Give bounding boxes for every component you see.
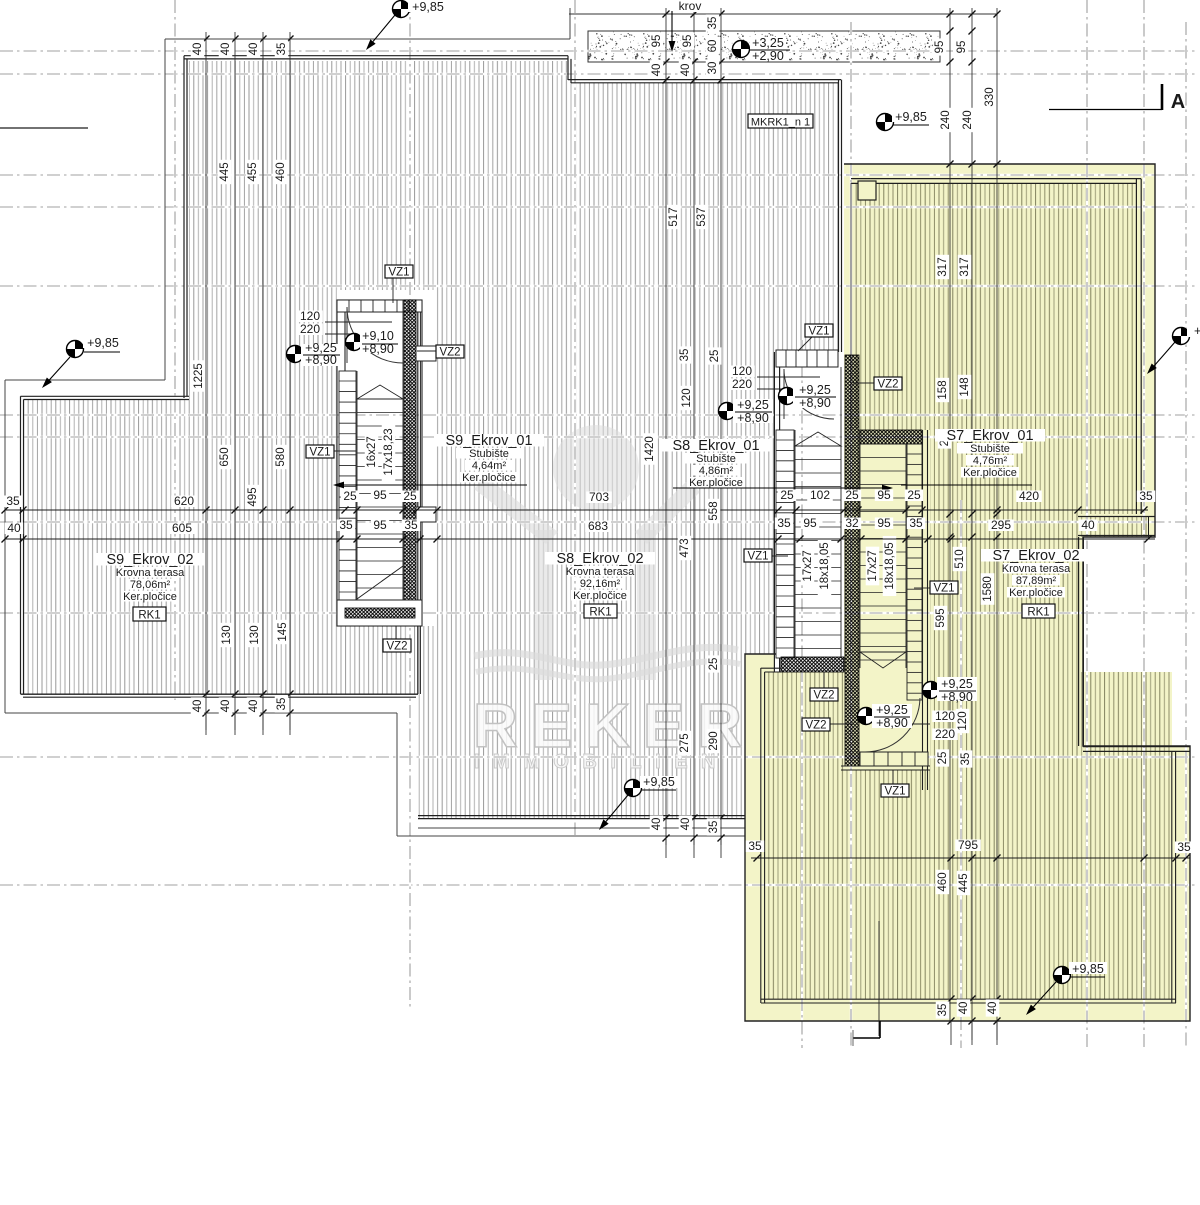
white S9 stair box [337, 290, 436, 626]
dimension ticks on S9 top boundary [203, 36, 210, 43]
S7 lower terrace left inner wall [760, 668, 762, 1003]
svg-text:95: 95 [877, 516, 891, 530]
svg-text:VZ2: VZ2 [813, 689, 834, 701]
S8 stair flight label 18x18,05 [818, 536, 832, 596]
svg-text:240: 240 [940, 110, 952, 129]
svg-text:95: 95 [956, 41, 968, 54]
S7 stair right rail flight [907, 444, 922, 700]
svg-text:650: 650 [219, 447, 231, 466]
svg-text:RK1: RK1 [138, 609, 160, 621]
svg-text:VZ1: VZ1 [388, 266, 409, 278]
svg-text:VZ1: VZ1 [309, 446, 330, 458]
svg-text:35: 35 [679, 349, 691, 362]
S8 right boundary wall [838, 80, 840, 352]
datum +9,85 lower terrace [1054, 967, 1071, 984]
svg-text:40: 40 [987, 1002, 999, 1015]
yellow hatch S7 upper right part [930, 430, 1136, 514]
label RK1 yellow terrace [1022, 604, 1055, 618]
S7 yellow outer boundary [745, 164, 1190, 1021]
svg-text:Krovna terasa: Krovna terasa [1002, 563, 1071, 575]
svg-text:+8,90: +8,90 [799, 396, 831, 410]
label VZ1 left of right stair [771, 555, 788, 557]
label MKRK1_n 1 [748, 114, 813, 128]
svg-text:+9,85: +9,85 [895, 110, 927, 124]
label VZ2 below left stair [395, 626, 397, 639]
S7 top block inner wall [851, 178, 1141, 180]
svg-text:40: 40 [220, 43, 232, 56]
label VZ1 above left stair [392, 278, 394, 303]
S8 stair left wall [773, 352, 775, 672]
svg-text:795: 795 [958, 838, 978, 852]
chain labels 275 290 25 [678, 731, 692, 755]
S9 outer boundary left [164, 39, 166, 380]
datum +9,85 mid-right [877, 114, 894, 131]
horizontal grid axes [0, 50, 1196, 52]
S9 stair enclosure [337, 300, 422, 626]
svg-text:VZ1: VZ1 [747, 550, 768, 562]
room leader S9_Ekrov_01 [344, 484, 527, 486]
chain labels 445 455 460 [218, 160, 232, 184]
svg-text:17x27: 17x27 [867, 550, 879, 581]
S7 notch vertical wall [1078, 537, 1080, 746]
svg-text:130: 130 [221, 625, 233, 644]
svg-text:95: 95 [877, 488, 891, 502]
svg-text:537: 537 [696, 207, 708, 226]
dimension ticks on line 703 [2, 507, 9, 514]
S7 lower-right step wall [1083, 746, 1190, 748]
svg-text:4,86m²: 4,86m² [699, 465, 734, 477]
chain labels 130 130 145 [220, 623, 234, 647]
svg-text:35: 35 [937, 1004, 949, 1017]
plain yellow stair zone lower [844, 672, 930, 770]
svg-text:220: 220 [300, 322, 320, 336]
middle dimension chain lines [665, 8, 667, 845]
datum +9,10 +8,90 left stair [346, 334, 363, 351]
S9 left parapet wall [183, 56, 185, 398]
S9 top parapet wall [184, 55, 568, 57]
svg-text:40: 40 [192, 43, 204, 56]
yellow hatch S7 upper terrace [851, 183, 1136, 430]
svg-text:87,89m²: 87,89m² [1016, 575, 1057, 587]
svg-text:510: 510 [954, 549, 966, 568]
svg-text:+9,10: +9,10 [362, 329, 394, 343]
vertical line in lower terrace [878, 921, 880, 1036]
svg-text:703: 703 [589, 490, 609, 504]
svg-text:92,16m²: 92,16m² [580, 578, 621, 590]
watermark right light beam [635, 480, 700, 544]
chain labels 517 537 [667, 205, 681, 229]
svg-text:35: 35 [1139, 489, 1153, 503]
svg-text:Ker.pločice: Ker.pločice [689, 477, 743, 489]
svg-text:1225: 1225 [193, 363, 205, 389]
top reference line at roof edge [569, 13, 997, 15]
svg-text:35: 35 [6, 494, 20, 508]
S8 bottom chain labels 40 40 35 [650, 815, 664, 832]
extension stubs below outlines [205, 713, 207, 735]
datum +9,25 +8,90 right stair top [779, 388, 796, 405]
svg-text:460: 460 [275, 162, 287, 181]
S8 top parapet wall [568, 79, 841, 81]
svg-text:4,76m²: 4,76m² [973, 455, 1008, 467]
dimension ticks S8 bottom [663, 815, 670, 822]
svg-text:18x18,05: 18x18,05 [884, 542, 896, 589]
watermark left light beam [474, 477, 558, 544]
dimension ticks top chain [663, 11, 670, 18]
svg-text:595: 595 [935, 608, 947, 627]
svg-text:VZ1: VZ1 [933, 582, 954, 594]
S8 stair top landing tread band [776, 350, 838, 367]
svg-text:Ker.pločice: Ker.pločice [123, 591, 177, 603]
svg-text:VZ2: VZ2 [439, 346, 460, 358]
svg-text:35: 35 [276, 43, 288, 56]
svg-text:558: 558 [708, 501, 720, 520]
S8 bottom parapet wall [418, 815, 745, 817]
svg-text:25: 25 [403, 489, 417, 503]
svg-text:krov: krov [679, 0, 702, 13]
svg-text:25: 25 [907, 488, 921, 502]
svg-text:95: 95 [682, 35, 694, 48]
svg-text:18x18,05: 18x18,05 [819, 542, 831, 589]
dim row 703 [4, 495, 22, 507]
svg-text:+8,90: +8,90 [876, 716, 908, 730]
svg-text:35: 35 [960, 753, 972, 766]
svg-text:95: 95 [373, 518, 387, 532]
svg-text:120: 120 [681, 388, 693, 407]
S9/S8 divider wall [417, 302, 419, 694]
S8 outer boundary bottom [397, 835, 745, 837]
svg-text:35: 35 [339, 518, 353, 532]
central stair core crosshatch wall [845, 355, 859, 766]
svg-text:40: 40 [680, 818, 692, 831]
svg-text:32: 32 [845, 516, 859, 530]
svg-text:35: 35 [707, 17, 719, 30]
datum +9,25 +8,90 middle [719, 403, 736, 420]
svg-text:35: 35 [708, 821, 720, 834]
S7 corridor walls [1078, 516, 1155, 518]
S9 stair left rail flight [339, 371, 356, 620]
svg-text:35: 35 [404, 518, 418, 532]
svg-text:40: 40 [651, 64, 663, 77]
svg-text:1580: 1580 [982, 576, 994, 602]
svg-text:17x27: 17x27 [802, 550, 814, 581]
svg-text:Krovna terasa: Krovna terasa [566, 566, 635, 578]
S9 stair direction triangle [357, 385, 403, 399]
S8 stair main flight treads [794, 430, 796, 658]
svg-text:+9,85: +9,85 [87, 336, 119, 350]
svg-text:Stubište: Stubište [970, 443, 1010, 455]
svg-text:40: 40 [7, 521, 21, 535]
svg-text:317: 317 [959, 257, 971, 276]
S7 stair bottom boundary lines [841, 765, 930, 767]
svg-text:95: 95 [803, 516, 817, 530]
S7 stair flight label 18x18,05 [883, 536, 897, 596]
S8 stair flight label 17x27 [801, 547, 815, 586]
svg-text:60: 60 [707, 40, 719, 53]
S9 stair bottom box [337, 600, 422, 626]
S7 lower terrace bottom inner wall [761, 998, 1176, 1000]
datum +3,25 +2,90 [733, 41, 750, 58]
svg-text:Stubište: Stubište [469, 448, 509, 460]
svg-text:40: 40 [248, 43, 260, 56]
svg-text:+9,25: +9,25 [737, 398, 769, 412]
S7 stair main flight treads [905, 444, 907, 668]
S8 stair door swing arc [784, 369, 834, 419]
dimension ticks yellow right upper [947, 161, 954, 168]
S8 step wall at top [567, 56, 569, 80]
vertical grid axes [174, 0, 176, 700]
svg-text:+9,85: +9,85 [1072, 962, 1104, 976]
svg-text:120: 120 [957, 711, 969, 730]
right dimension chain lines [949, 8, 951, 1021]
svg-text:145: 145 [277, 622, 289, 641]
svg-text:S7_Ekrov_02: S7_Ekrov_02 [992, 548, 1079, 564]
watermark tower right pillar [637, 530, 656, 680]
yellow unit S7 base area [745, 164, 1190, 1021]
S9 outer boundary top [165, 38, 570, 40]
svg-text:620: 620 [174, 494, 194, 508]
S9 stair flight label 17x18,23 [382, 422, 396, 482]
overall dimension line 703 [5, 509, 1148, 511]
label VZ2 below S8 stair [823, 672, 825, 688]
svg-text:VZ2: VZ2 [805, 719, 826, 731]
S9 stair wall crosshatch [404, 300, 416, 626]
chain labels 460 445 [936, 870, 950, 894]
S7 top block hatch left edge [850, 183, 852, 430]
label VZ1 below S7 stair [892, 770, 894, 784]
svg-text:120: 120 [300, 309, 320, 323]
svg-text:S9_Ekrov_02: S9_Ekrov_02 [106, 552, 193, 568]
svg-text:VZ1: VZ1 [884, 785, 905, 797]
room label S7_Ekrov_02 [981, 549, 1091, 562]
svg-text:460: 460 [937, 872, 949, 891]
lower terrace dimension line 795 [751, 857, 1190, 859]
svg-text:95: 95 [651, 35, 663, 48]
svg-text:+9,85: +9,85 [643, 775, 675, 789]
room label S8_Ekrov_02 [545, 552, 655, 565]
S7 stair right wall [922, 430, 924, 790]
S7 stair door dim 120/220 [905, 723, 930, 725]
svg-text:Krovna terasa: Krovna terasa [116, 567, 185, 579]
svg-text:420: 420 [1019, 489, 1039, 503]
svg-text:25: 25 [343, 489, 357, 503]
chain labels 1420 558 473 [643, 433, 657, 465]
svg-text:35: 35 [1177, 840, 1191, 854]
chain labels 317 317 [936, 255, 950, 279]
krov leader arrow [671, 11, 673, 41]
S9 stair top landing tread band [337, 300, 422, 312]
svg-text:35: 35 [777, 516, 791, 530]
S9 stair break line [357, 566, 403, 599]
datum +9,85 left [67, 341, 84, 358]
svg-text:605: 605 [172, 521, 192, 535]
bottom chain labels 35 40 40 [936, 1001, 950, 1018]
yellow hatch S7 corridor band [1078, 516, 1148, 537]
S7 stair direction triangle down [860, 652, 906, 668]
S7 stair door swing arc [864, 698, 920, 752]
watermark lighthouse beacon circle [553, 425, 639, 511]
section mark A top right [1161, 84, 1164, 110]
white S8 stair strip [774, 352, 844, 672]
svg-text:+9,85: +9,85 [412, 0, 444, 14]
left dimension chain lines [205, 32, 207, 730]
svg-text:40: 40 [958, 1002, 970, 1015]
svg-text:A: A [1171, 91, 1185, 113]
svg-text:Ker.pločice: Ker.pločice [573, 590, 627, 602]
label VZ2 right of left stair [417, 350, 436, 352]
top-right chain labels 95 95 [933, 38, 947, 55]
S9 lower-left parapet wall [21, 395, 190, 397]
label VZ1 above right stair [798, 337, 812, 351]
labels above right stair 35 25 120 [678, 346, 692, 363]
svg-text:40: 40 [680, 64, 692, 77]
S9 outer boundary bottom [5, 712, 397, 714]
room label S9_Ekrov_02 [95, 553, 205, 566]
svg-text:445: 445 [219, 162, 231, 181]
svg-text:+9,25: +9,25 [876, 703, 908, 717]
concrete stipple band at roof edge [588, 31, 940, 62]
svg-text:25: 25 [845, 488, 859, 502]
section mark bottom [853, 1037, 880, 1039]
svg-text:25: 25 [708, 658, 720, 671]
svg-text:40: 40 [651, 818, 663, 831]
svg-text:78,06m²: 78,06m² [130, 579, 171, 591]
svg-text:25: 25 [937, 752, 949, 765]
svg-text:1420: 1420 [644, 436, 656, 462]
svg-text:455: 455 [247, 162, 259, 181]
svg-text:S9_Ekrov_01: S9_Ekrov_01 [445, 433, 532, 449]
left margin reference line [0, 127, 88, 129]
svg-text:40: 40 [1081, 518, 1095, 532]
svg-text:S7_Ekrov_01: S7_Ekrov_01 [946, 428, 1033, 444]
svg-text:275: 275 [679, 733, 691, 752]
label VZ2 lower [830, 723, 852, 725]
label VZ2 in yellow upper [853, 382, 874, 384]
svg-text:330: 330 [984, 87, 996, 106]
svg-text:S8_Ekrov_01: S8_Ekrov_01 [672, 438, 759, 454]
S7 lower terrace top-left inner wall [761, 667, 781, 669]
label VZ1 left of left stair [333, 450, 356, 452]
svg-text:295: 295 [991, 518, 1011, 532]
svg-text:+8,90: +8,90 [737, 411, 769, 425]
svg-text:4,64m²: 4,64m² [472, 460, 507, 472]
S7 stair entry tread row [860, 752, 928, 766]
S7 stair top crosshatch band [860, 430, 922, 444]
S9 stair door swing arc [347, 307, 403, 363]
svg-text:RK1: RK1 [1027, 606, 1049, 618]
S9 bottom parapet wall [21, 693, 419, 695]
svg-text:40: 40 [248, 700, 260, 713]
svg-text:40: 40 [192, 700, 204, 713]
svg-text:95: 95 [934, 41, 946, 54]
room label S7_Ekrov_01 [935, 429, 1045, 442]
svg-text:317: 317 [937, 257, 949, 276]
svg-text:VZ2: VZ2 [386, 640, 407, 652]
svg-text:+3,25: +3,25 [752, 36, 784, 50]
svg-text:16x27: 16x27 [366, 436, 378, 467]
chain labels 120 25 35 near S7 door [956, 709, 970, 733]
svg-text:130: 130 [249, 625, 261, 644]
dimension ticks on line 683 [2, 536, 9, 543]
svg-text:445: 445 [958, 873, 970, 892]
svg-text:120: 120 [732, 364, 752, 378]
S8 outer boundary step down [396, 713, 398, 836]
krov label [674, 0, 707, 12]
svg-text:95: 95 [373, 488, 387, 502]
dimension ticks S9 bottom [203, 691, 210, 698]
svg-text:102: 102 [810, 488, 830, 502]
svg-text:473: 473 [679, 538, 691, 557]
svg-text:220: 220 [935, 727, 955, 741]
chain labels 158 148 25 [936, 378, 950, 402]
svg-text:35: 35 [748, 839, 762, 853]
datum +9,85 top [393, 1, 410, 18]
svg-text:+9: +9 [1194, 324, 1200, 338]
svg-text:Ker.pločice: Ker.pločice [1009, 587, 1063, 599]
S8 stair door dim 120/220 [757, 376, 820, 378]
yellow hatch S7 lower terrace [765, 672, 1172, 999]
bottom-left chain labels 40 40 40 35 [191, 697, 205, 714]
svg-text:580: 580 [275, 447, 287, 466]
svg-text:35: 35 [276, 698, 288, 711]
datum +9,85 bottom middle [625, 780, 642, 797]
S9 stair main flight treads [356, 371, 358, 626]
svg-text:17x18,23: 17x18,23 [383, 428, 395, 475]
svg-text:25: 25 [780, 488, 794, 502]
dim row lower terrace 795 [746, 840, 764, 852]
svg-text:+8,90: +8,90 [941, 690, 973, 704]
S9 stair door dim 120/220 [325, 321, 392, 323]
S9 stair flight label 16x27 [365, 433, 379, 472]
svg-text:Ker.pločice: Ker.pločice [462, 472, 516, 484]
svg-text:40: 40 [220, 700, 232, 713]
svg-text:120: 120 [935, 709, 955, 723]
svg-text:495: 495 [247, 487, 259, 506]
svg-text:+9,25: +9,25 [799, 383, 831, 397]
watermark tower left pillar [535, 530, 554, 680]
S7 wall notch [858, 181, 876, 200]
S7 stair flight label 17x27 [866, 547, 880, 586]
svg-text:290: 290 [708, 731, 720, 750]
svg-text:158: 158 [937, 380, 949, 399]
watermark wave upper [474, 647, 738, 665]
S9 outer boundary step [5, 379, 165, 381]
S8 stair bottom wall crosshatch [781, 657, 844, 672]
overall dimension line 683 [5, 538, 1155, 540]
datum +9,25 +8,90 left of stair [287, 346, 304, 363]
svg-text:30: 30 [707, 62, 719, 75]
top-middle labels 95 95 35 60 30 40 40 [650, 32, 664, 49]
label RK1 middle terrace [584, 604, 617, 618]
svg-text:148: 148 [959, 377, 971, 396]
top-left chain labels 40 40 40 35 [191, 40, 205, 57]
watermark wave lower [476, 661, 740, 679]
svg-text:VZ2: VZ2 [877, 378, 898, 390]
S7 lower terrace right inner wall [1171, 751, 1173, 1003]
svg-text:35: 35 [909, 516, 923, 530]
svg-text:Ker.pločice: Ker.pločice [963, 467, 1017, 479]
room label S8_Ekrov_01 [661, 439, 771, 452]
room label S9_Ekrov_01 [434, 434, 544, 447]
svg-text:240: 240 [962, 110, 974, 129]
S8 stair direction triangle [795, 432, 841, 446]
plain yellow stair zone upper [844, 430, 930, 514]
chain labels 240 240 330 [939, 108, 953, 132]
label RK1 left terrace [133, 607, 166, 621]
svg-text:RK1: RK1 [589, 606, 611, 618]
svg-text:517: 517 [668, 207, 680, 226]
yellow hatch S7 middle connector [930, 514, 1078, 672]
chain labels 650 495 580 [218, 445, 232, 469]
